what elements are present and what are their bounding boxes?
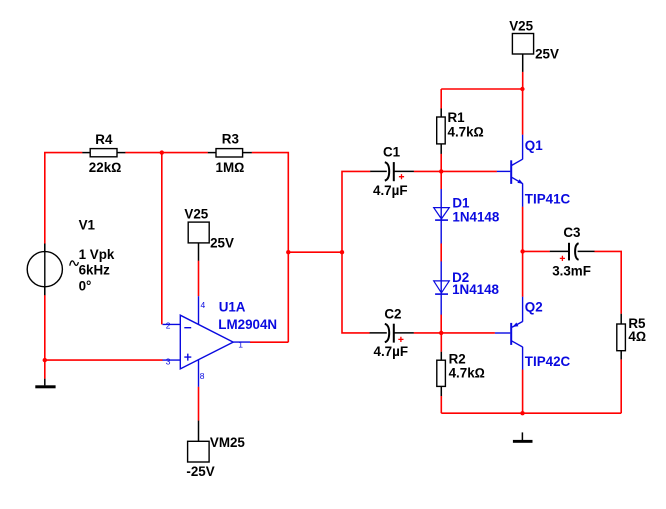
svg-text:-25V: -25V <box>186 464 214 479</box>
svg-text:2: 2 <box>166 321 171 331</box>
svg-text:1MΩ: 1MΩ <box>216 160 245 175</box>
svg-text:U1A: U1A <box>219 300 246 315</box>
svg-text:Q1: Q1 <box>525 138 543 153</box>
svg-text:25V: 25V <box>210 235 234 250</box>
svg-text:4.7kΩ: 4.7kΩ <box>448 124 484 139</box>
svg-text:4.7kΩ: 4.7kΩ <box>449 366 485 381</box>
svg-text:4: 4 <box>201 300 206 310</box>
svg-text:V25: V25 <box>184 207 208 222</box>
svg-text:R1: R1 <box>448 110 466 125</box>
svg-text:4.7µF: 4.7µF <box>373 183 408 198</box>
svg-text:4.7µF: 4.7µF <box>374 344 409 359</box>
svg-text:1: 1 <box>238 339 243 349</box>
svg-text:C1: C1 <box>383 145 401 160</box>
svg-text:1N4148: 1N4148 <box>452 210 499 225</box>
svg-text:25V: 25V <box>535 46 559 61</box>
svg-text:3: 3 <box>166 356 171 366</box>
svg-text:TIP41C: TIP41C <box>525 191 571 206</box>
svg-text:1N4148: 1N4148 <box>452 282 499 297</box>
svg-text:4Ω: 4Ω <box>628 329 646 344</box>
svg-text:3.3mF: 3.3mF <box>552 263 591 278</box>
svg-text:0°: 0° <box>79 278 92 293</box>
svg-text:LM2904N: LM2904N <box>218 317 277 332</box>
svg-text:C2: C2 <box>384 306 401 321</box>
svg-text:R3: R3 <box>222 131 239 146</box>
svg-text:6kHz: 6kHz <box>79 262 111 277</box>
svg-text:VM25: VM25 <box>210 435 246 450</box>
svg-text:V25: V25 <box>509 18 533 33</box>
svg-text:TIP42C: TIP42C <box>525 354 571 369</box>
svg-text:1 Vpk: 1 Vpk <box>79 247 115 262</box>
svg-text:D1: D1 <box>452 195 470 210</box>
svg-text:V1: V1 <box>79 217 96 232</box>
svg-text:R4: R4 <box>95 132 113 147</box>
svg-text:R2: R2 <box>449 352 466 367</box>
svg-text:C3: C3 <box>563 225 580 240</box>
svg-text:22kΩ: 22kΩ <box>89 160 122 175</box>
svg-text:Q2: Q2 <box>525 299 543 314</box>
svg-text:8: 8 <box>200 371 205 381</box>
